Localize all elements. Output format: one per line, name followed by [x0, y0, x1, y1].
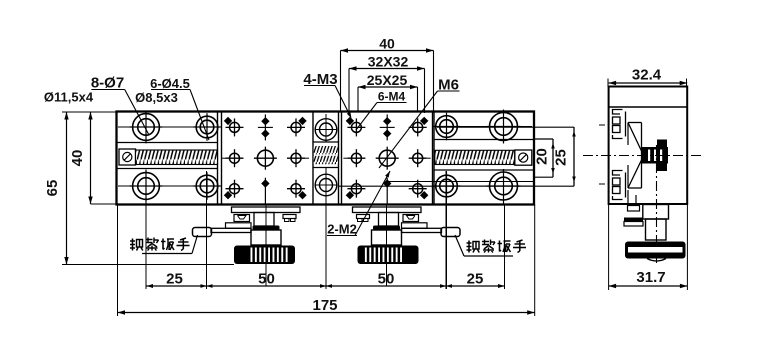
svg-text:32X32: 32X32 — [368, 54, 409, 70]
svg-text:6-Ø4.5: 6-Ø4.5 — [150, 76, 190, 91]
svg-text:65: 65 — [44, 180, 61, 197]
svg-text:25: 25 — [166, 271, 183, 288]
svg-text:25: 25 — [553, 149, 570, 166]
svg-text:Ø11,5x4: Ø11,5x4 — [44, 90, 94, 105]
svg-text:31.7: 31.7 — [636, 269, 665, 286]
svg-text:32.4: 32.4 — [632, 67, 662, 84]
svg-text:2-M2: 2-M2 — [327, 222, 357, 237]
svg-text:25: 25 — [467, 271, 484, 288]
svg-text:Ø8,5x3: Ø8,5x3 — [135, 90, 178, 105]
svg-text:25X25: 25X25 — [367, 72, 408, 88]
svg-text:40: 40 — [379, 36, 395, 52]
svg-text:175: 175 — [312, 297, 337, 314]
svg-text:20: 20 — [534, 148, 551, 165]
svg-text:6-M4: 6-M4 — [378, 90, 406, 104]
svg-text:40: 40 — [69, 150, 86, 167]
